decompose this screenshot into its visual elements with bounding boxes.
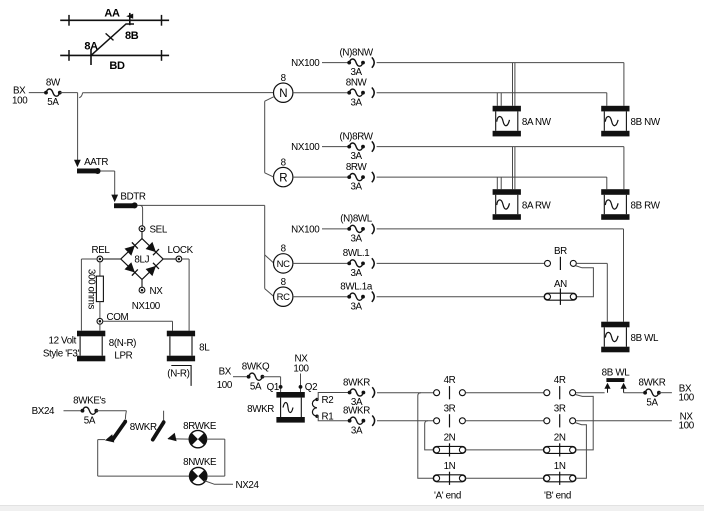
svg-text:8WL.1: 8WL.1 (343, 248, 370, 259)
terminal SEL (140, 205, 143, 225)
svg-text:3A: 3A (351, 425, 363, 436)
svg-text:1N: 1N (554, 461, 566, 472)
wire N to R bus (265, 96, 275, 101)
indicator NC (274, 254, 293, 273)
fuse 8W 5A (44, 91, 48, 95)
svg-text:100: 100 (293, 364, 309, 375)
terminal COM (97, 318, 103, 324)
wire BR to AN (576, 266, 594, 297)
svg-text:Q1: Q1 (267, 382, 279, 393)
wire COM to 8L (103, 320, 173, 322)
svg-text:2N: 2N (444, 432, 456, 443)
svg-text:NX100: NX100 (291, 58, 320, 69)
svg-text:SEL: SEL (150, 224, 168, 235)
fuse 8NW 3A (293, 92, 349, 94)
svg-text:5A: 5A (84, 415, 96, 426)
svg-text:Style 'F3': Style 'F3' (43, 349, 80, 360)
svg-text:8WKQ: 8WKQ (242, 362, 270, 373)
wire (377, 62, 624, 64)
wire BR to 8B WL (576, 262, 607, 264)
wire (659, 392, 672, 394)
wire BDTR out (138, 204, 265, 206)
svg-text:8LJ: 8LJ (134, 254, 149, 265)
fuse (N)8NW 3A (347, 61, 351, 65)
secondary winding (312, 399, 317, 416)
svg-text:8: 8 (281, 157, 287, 168)
svg-text:1N: 1N (444, 461, 456, 472)
svg-text:NX: NX (150, 286, 164, 297)
contact AN (544, 293, 577, 300)
svg-text:BX: BX (219, 366, 232, 377)
wire (377, 176, 607, 178)
contact 8B WL (606, 378, 624, 382)
relay coil 8L (167, 331, 195, 337)
wire (377, 92, 607, 94)
pin R2 (315, 398, 318, 401)
svg-text:5A: 5A (47, 97, 59, 108)
wire LOCK to 8L (182, 258, 189, 260)
wire (60, 92, 78, 94)
wire (377, 146, 624, 148)
coil 8B NW (601, 106, 629, 112)
diode top-left (125, 246, 135, 256)
fuse 8WL.1a 3A (293, 296, 349, 298)
switch 8B tick (129, 13, 131, 25)
svg-text:RC: RC (277, 292, 291, 303)
transformer 8WKR (276, 392, 304, 398)
wire taps (496, 93, 498, 106)
svg-text:3A: 3A (350, 97, 362, 108)
svg-text:NX100: NX100 (291, 225, 320, 236)
svg-text:3A: 3A (350, 151, 362, 162)
contact 8WKR (left) (125, 411, 126, 419)
svg-text:100: 100 (679, 393, 695, 404)
svg-text:8L: 8L (199, 342, 210, 353)
row wires (465, 392, 543, 394)
svg-text:(N)8RW: (N)8RW (340, 131, 374, 142)
svg-text:NX100: NX100 (291, 142, 320, 153)
svg-text:2N: 2N (554, 432, 566, 443)
svg-text:5A: 5A (250, 381, 262, 392)
svg-text:8B: 8B (125, 30, 139, 42)
svg-text:8: 8 (281, 73, 287, 84)
svg-text:3A: 3A (350, 301, 362, 312)
svg-text:5A: 5A (646, 397, 658, 408)
terminal NX (141, 279, 143, 287)
contact (N-R) bracket (171, 366, 191, 386)
diode bottom-right (146, 266, 156, 276)
svg-text:'B' end: 'B' end (544, 490, 571, 501)
svg-text:8B WL: 8B WL (631, 333, 660, 344)
svg-text:NC: NC (277, 259, 291, 270)
indicator RC (274, 287, 293, 306)
fuse 8WKR 5A (643, 391, 647, 395)
fuse 8WKR 3A (upper) (348, 391, 352, 395)
svg-text:8A RW: 8A RW (522, 201, 552, 212)
relay BDTR (111, 195, 118, 203)
svg-text:8RW: 8RW (346, 162, 368, 173)
wire rows in (377, 392, 434, 394)
wire to N (79, 93, 273, 98)
wire (624, 392, 646, 394)
track diagram (60, 19, 169, 21)
indicator N (274, 83, 293, 102)
svg-text:4R: 4R (554, 375, 566, 386)
svg-text:NX100: NX100 (132, 301, 161, 312)
svg-text:N: N (279, 88, 287, 100)
wire lamp to contact (168, 438, 189, 440)
signal flag (126, 14, 133, 19)
left bracket wires (418, 393, 434, 479)
resistor 300 ohms (99, 262, 101, 276)
svg-text:12 Volt: 12 Volt (48, 336, 76, 347)
svg-text:300 ohms: 300 ohms (86, 269, 97, 310)
right bracket 3R-1N (575, 423, 586, 479)
svg-text:8A NW: 8A NW (522, 117, 552, 128)
svg-text:100: 100 (679, 421, 695, 432)
wire (377, 228, 624, 230)
svg-text:8NWKE: 8NWKE (183, 457, 217, 468)
svg-text:AATR: AATR (84, 157, 108, 168)
contact 8WKR (right) (163, 411, 165, 422)
svg-text:3R: 3R (444, 403, 456, 414)
svg-text:AA: AA (104, 8, 120, 20)
svg-text:8B RW: 8B RW (631, 201, 661, 212)
contact 3R (A end) (434, 418, 440, 424)
svg-text:(N)8WL: (N)8WL (340, 214, 373, 225)
bottom scroll strip (0, 506, 704, 511)
pin Q1 (279, 385, 283, 389)
svg-text:Q2: Q2 (305, 382, 317, 393)
svg-text:R2: R2 (322, 395, 334, 406)
fuse 8WKE's 5A (81, 409, 85, 413)
svg-text:LPR: LPR (114, 350, 132, 361)
wire R1 (317, 416, 350, 421)
coil 8B RW (601, 189, 629, 195)
svg-text:8WKR: 8WKR (247, 404, 274, 415)
wire REL left (81, 258, 97, 260)
fuse 8WL.1 3A (293, 262, 349, 264)
wire NX row out (576, 420, 672, 422)
svg-text:3A: 3A (350, 268, 362, 279)
svg-text:3R: 3R (554, 403, 566, 414)
switch 8A tick (90, 49, 92, 65)
svg-text:8NW: 8NW (346, 78, 368, 89)
contact 1N (A end) (433, 475, 466, 482)
svg-text:8B NW: 8B NW (631, 117, 661, 128)
wire 4R row out (576, 392, 605, 394)
relay AATR (74, 160, 81, 168)
svg-text:8: 8 (281, 277, 287, 288)
fuse 8WKQ 5A (247, 375, 251, 379)
svg-text:8WL.1a: 8WL.1a (340, 282, 373, 293)
svg-text:8B WL: 8B WL (602, 367, 631, 378)
wire to Q1 (262, 376, 280, 378)
svg-text:R: R (279, 172, 287, 184)
wire (96, 410, 126, 412)
svg-text:8(N-R): 8(N-R) (109, 338, 136, 349)
svg-text:3A: 3A (350, 234, 362, 245)
svg-text:(N)8NW: (N)8NW (339, 47, 373, 58)
svg-text:'A' end: 'A' end (434, 490, 461, 501)
svg-text:3A: 3A (350, 182, 362, 193)
wire to NC (265, 255, 274, 263)
svg-text:8WKR: 8WKR (130, 422, 157, 433)
wire (101, 170, 115, 172)
wires lamps right (207, 438, 225, 440)
svg-text:REL: REL (92, 245, 111, 256)
contact 4R (B end) (544, 390, 550, 396)
fuse 8RW 3A (293, 176, 349, 178)
svg-text:4R: 4R (444, 375, 456, 386)
svg-text:8WKE's: 8WKE's (73, 396, 106, 407)
coil 8A RW (493, 189, 521, 195)
svg-text:BDTR: BDTR (120, 192, 146, 203)
svg-text:100: 100 (217, 380, 233, 391)
svg-text:LOCK: LOCK (168, 245, 194, 256)
svg-text:8A: 8A (84, 41, 98, 53)
svg-text:8WKR: 8WKR (343, 406, 370, 417)
wire to NX24 (204, 481, 233, 485)
wire taps to 8A coil (512, 63, 514, 106)
svg-text:8WKR: 8WKR (639, 378, 666, 389)
svg-text:8WKR: 8WKR (343, 377, 370, 388)
diode top-right (146, 242, 156, 252)
svg-text:BX24: BX24 (32, 406, 55, 417)
right bracket 4R-2N (575, 395, 593, 450)
contact 1N (B end) (543, 475, 576, 482)
svg-text:(N-R): (N-R) (167, 368, 189, 379)
svg-text:AN: AN (554, 279, 567, 290)
svg-text:8: 8 (281, 244, 287, 255)
svg-text:NX24: NX24 (236, 480, 260, 491)
bridge rectifier 8LJ (141, 232, 143, 239)
fuse 8WKR 3A (lower) (348, 419, 352, 423)
wire (98, 439, 106, 441)
pin Q2 (299, 385, 303, 389)
svg-text:100: 100 (12, 96, 28, 107)
terminal REL (103, 258, 121, 260)
indicator R (274, 167, 293, 186)
fuse (N)8RW 3A (347, 145, 351, 149)
svg-text:BR: BR (554, 246, 567, 257)
wire (29, 92, 46, 94)
fuse (N)8WL 3A (347, 227, 351, 231)
contact 2N (B end) (543, 446, 576, 453)
contact 2N (A end) (433, 446, 466, 453)
coil 8A NW (493, 106, 521, 112)
svg-text:8W: 8W (46, 77, 61, 88)
wire R2 (317, 393, 350, 400)
coil 8B WL (601, 322, 629, 328)
crossover diagonal (91, 24, 134, 55)
wire taps to 8A coil (512, 147, 514, 190)
diode bottom-left (125, 262, 135, 272)
svg-text:BD: BD (109, 60, 125, 72)
wire to Q2 (300, 374, 302, 393)
terminal LOCK (163, 258, 176, 260)
wire taps (496, 177, 498, 189)
pin R1 (315, 415, 318, 418)
relay coil 8(N-R) LPR (77, 331, 105, 337)
contact 4R (A end) (434, 390, 440, 396)
wire to RC (265, 289, 274, 297)
contact BR (545, 260, 551, 266)
contact 3R (B end) (544, 418, 550, 424)
